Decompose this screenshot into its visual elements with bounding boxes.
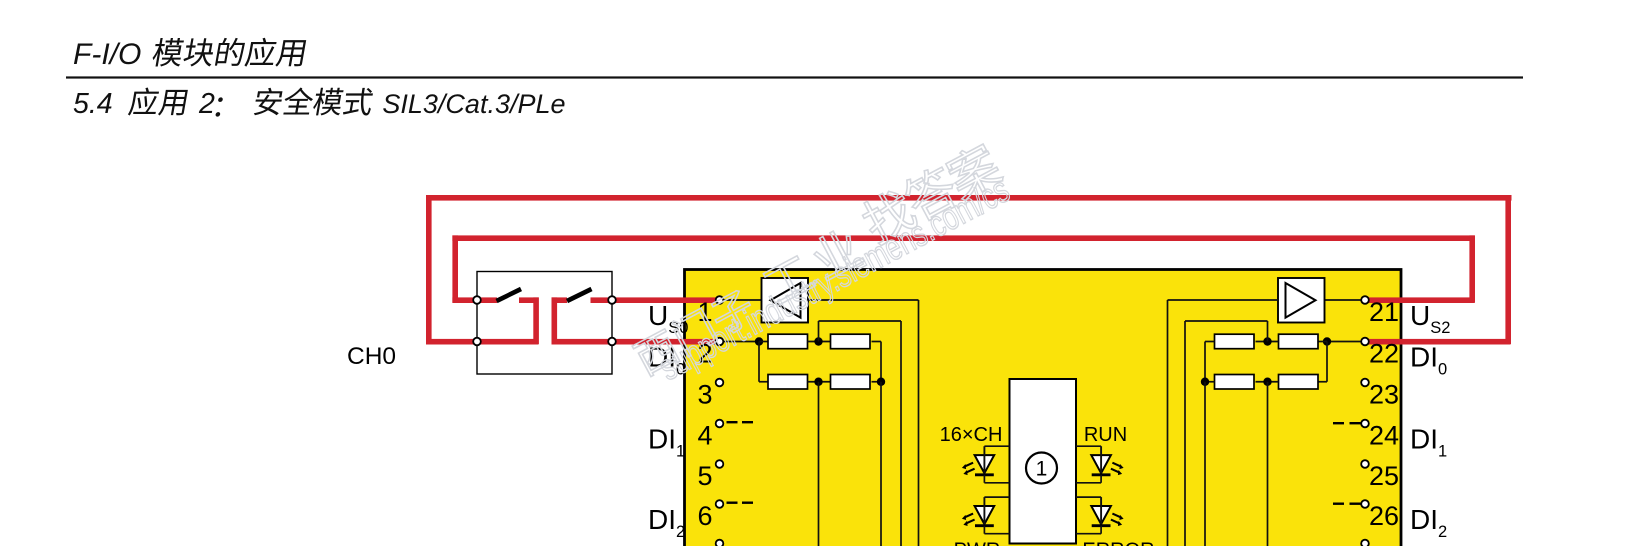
svg-text:F-I/O: F-I/O (73, 38, 141, 71)
LED diode symbol (975, 455, 995, 473)
LED emission arrows (965, 514, 973, 518)
wire red outer loop right (1505, 195, 1511, 344)
wire LED bracket top (1076, 445, 1101, 447)
pin 22 terminal (1361, 338, 1369, 346)
wire node A2 to R5 (1318, 341, 1327, 343)
svg-text:21: 21 (1369, 297, 1399, 327)
wire driver U4 output to supply rail (1168, 299, 1279, 301)
wire R4 to node C (872, 381, 882, 383)
resistor R4 (831, 375, 871, 390)
module body (yellow block) (685, 270, 1402, 546)
wire node A2 down to R7 (1326, 342, 1328, 382)
wire red outer loop left (426, 195, 432, 344)
wire supply rail left (918, 300, 920, 546)
op-amp U3 (left channel driver) (762, 278, 809, 323)
wire pin1 to driver U3 (722, 299, 762, 301)
contact S2 right (608, 338, 616, 346)
pin 7 terminal (716, 540, 724, 546)
wire R6 to corner (1205, 341, 1215, 343)
svg-text:ERROR: ERROR (1082, 540, 1154, 546)
node A junction (755, 337, 763, 345)
resistor R6 (1215, 334, 1255, 349)
wire red inner loop top (452, 235, 1474, 241)
svg-text:3: 3 (697, 380, 712, 410)
wire R5 to node B2 (1256, 341, 1279, 343)
wire LED bracket top (984, 445, 1009, 447)
svg-text:DI2: DI2 (648, 504, 685, 541)
svg-text:4: 4 (697, 421, 712, 451)
wire node A down to R3 (758, 342, 760, 382)
wire node A to R1 (759, 341, 768, 343)
wire node D2 down rail (1267, 382, 1269, 546)
dashed stub pin26 (1333, 503, 1344, 505)
svg-text:25: 25 (1369, 461, 1399, 491)
contact S1 right (608, 296, 616, 304)
wire red S2 down leg (552, 297, 558, 344)
header rule (66, 76, 1523, 78)
watermark (624, 139, 1018, 395)
wire red S1 output top (519, 297, 539, 303)
switch S1 blade (497, 289, 522, 301)
wire R3 to node D (808, 381, 831, 383)
resistor R3 (768, 375, 808, 390)
dashed stub pin24 (1333, 422, 1344, 424)
wire corner down to node C (880, 342, 882, 382)
wire R1 to node B (808, 341, 831, 343)
wire R8 to node C2 (1205, 381, 1215, 383)
LED emission arrows (1112, 463, 1120, 467)
pin 26 terminal (1361, 500, 1369, 508)
svg-text:5: 5 (697, 461, 712, 491)
pin 6 terminal (716, 500, 724, 508)
wire supply rail right (1167, 300, 1169, 546)
resistor R1 (768, 334, 808, 349)
wire red outer to pin22 (1364, 339, 1511, 345)
wire corner down to node C2 (1204, 342, 1206, 382)
contact S1 left (473, 296, 481, 304)
node D2 junction (1263, 378, 1271, 386)
svg-text:PWR: PWR (954, 540, 1001, 546)
wire R7 to node D2 (1256, 381, 1279, 383)
svg-text:16×CH: 16×CH (940, 424, 1003, 446)
resistor R5 (1279, 334, 1319, 349)
wire node D down rail (818, 382, 820, 546)
wire red inner loop right (1469, 235, 1475, 302)
wire red inner to pin21 (1364, 297, 1475, 303)
svg-text:DI1: DI1 (1410, 424, 1447, 461)
LED diode symbol (975, 506, 995, 524)
wire node C2 down rail (1204, 382, 1206, 546)
wire red inner loop left (452, 235, 458, 302)
LED diode symbol (1091, 455, 1111, 473)
pin 4 terminal (716, 420, 724, 428)
wire node B2 up-over to readback rail (1267, 321, 1269, 342)
wire node B up-over to readback rail (818, 321, 820, 342)
node C junction (877, 378, 885, 386)
wire red outer loop top (426, 195, 1512, 201)
svg-text:23: 23 (1369, 380, 1399, 410)
node A2 junction (1323, 337, 1331, 345)
pin 2 terminal (716, 338, 724, 346)
svg-text:RUN: RUN (1084, 424, 1127, 446)
wire LED bracket bottom (1076, 533, 1101, 535)
pin 3 terminal (716, 379, 724, 387)
pin 25 terminal (1361, 460, 1369, 468)
switch S2 blade (567, 289, 592, 301)
resistor R2 (831, 334, 871, 349)
pin 21 terminal (1361, 296, 1369, 304)
pin 5 terminal (716, 460, 724, 468)
wire LED bracket bottom (1076, 482, 1101, 484)
node B2 junction (1263, 337, 1271, 345)
resistor R7 (1279, 375, 1319, 390)
contact S2 left (473, 338, 481, 346)
LED emission arrows (1112, 514, 1120, 518)
node C2 junction (1201, 378, 1209, 386)
pin 24 terminal (1361, 420, 1369, 428)
wire node C down rail (880, 382, 882, 546)
svg-text:22: 22 (1369, 339, 1399, 369)
dashed stub pin6 (727, 502, 738, 504)
wire red S2 top stub (552, 297, 568, 303)
wire red S1 down leg (533, 297, 539, 344)
svg-text:SIL3/Cat.3/PLe: SIL3/Cat.3/PLe (382, 89, 565, 119)
wire driver U3 output to supply rail (808, 299, 919, 301)
logic block U1 (1010, 379, 1077, 544)
wire red S2 bottom row to pin2 (552, 339, 720, 345)
svg-text:CH0: CH0 (347, 343, 396, 370)
wire LED bracket top (984, 496, 1009, 498)
op-amp U4 (right channel driver) (1278, 278, 1325, 323)
LED diode symbol (1091, 506, 1111, 524)
node B junction (814, 337, 822, 345)
svg-text:5.4: 5.4 (73, 88, 113, 120)
wire LED bracket bottom (984, 533, 1009, 535)
pin 1 terminal (716, 296, 724, 304)
node D junction (814, 378, 822, 386)
wire pin22 to node A2 (1327, 341, 1364, 343)
LED emission arrows (965, 463, 973, 467)
wire pin2 to node A (722, 341, 759, 343)
svg-text:1: 1 (1036, 458, 1048, 481)
wire red outer to switch bottom row (426, 339, 539, 345)
svg-text:DI0: DI0 (1410, 342, 1447, 379)
wire LED bracket bottom (984, 482, 1009, 484)
dashed stub pin4 (727, 421, 738, 423)
switch block outline (477, 272, 612, 375)
svg-text:6: 6 (697, 501, 712, 531)
pin 23 terminal (1361, 379, 1369, 387)
wire R2 to corner (872, 341, 882, 343)
callout 1 symbol (1026, 453, 1057, 484)
resistor R8 (1215, 375, 1255, 390)
wire pin21 to driver U4 (1325, 299, 1365, 301)
svg-text:2: 2 (198, 88, 215, 120)
svg-text:DI2: DI2 (1410, 504, 1447, 541)
svg-text:26: 26 (1369, 501, 1399, 531)
wire red S2 output to pin1 (591, 297, 720, 303)
wire red inner to switch S1 (452, 297, 497, 303)
wire LED bracket top (1076, 496, 1101, 498)
pin 27 terminal (1361, 540, 1369, 546)
svg-text:US2: US2 (1410, 300, 1450, 337)
svg-text:24: 24 (1369, 421, 1399, 451)
svg-text:DI1: DI1 (648, 424, 685, 461)
